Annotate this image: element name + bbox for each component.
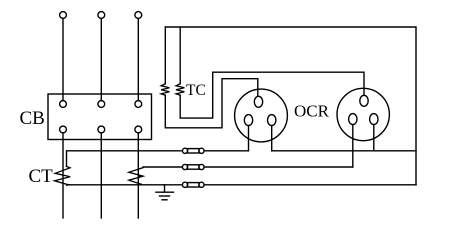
svg-text:TC: TC bbox=[186, 82, 206, 99]
svg-text:CB: CB bbox=[20, 108, 45, 129]
svg-text:OCR: OCR bbox=[294, 102, 330, 121]
svg-text:CT: CT bbox=[29, 166, 54, 187]
